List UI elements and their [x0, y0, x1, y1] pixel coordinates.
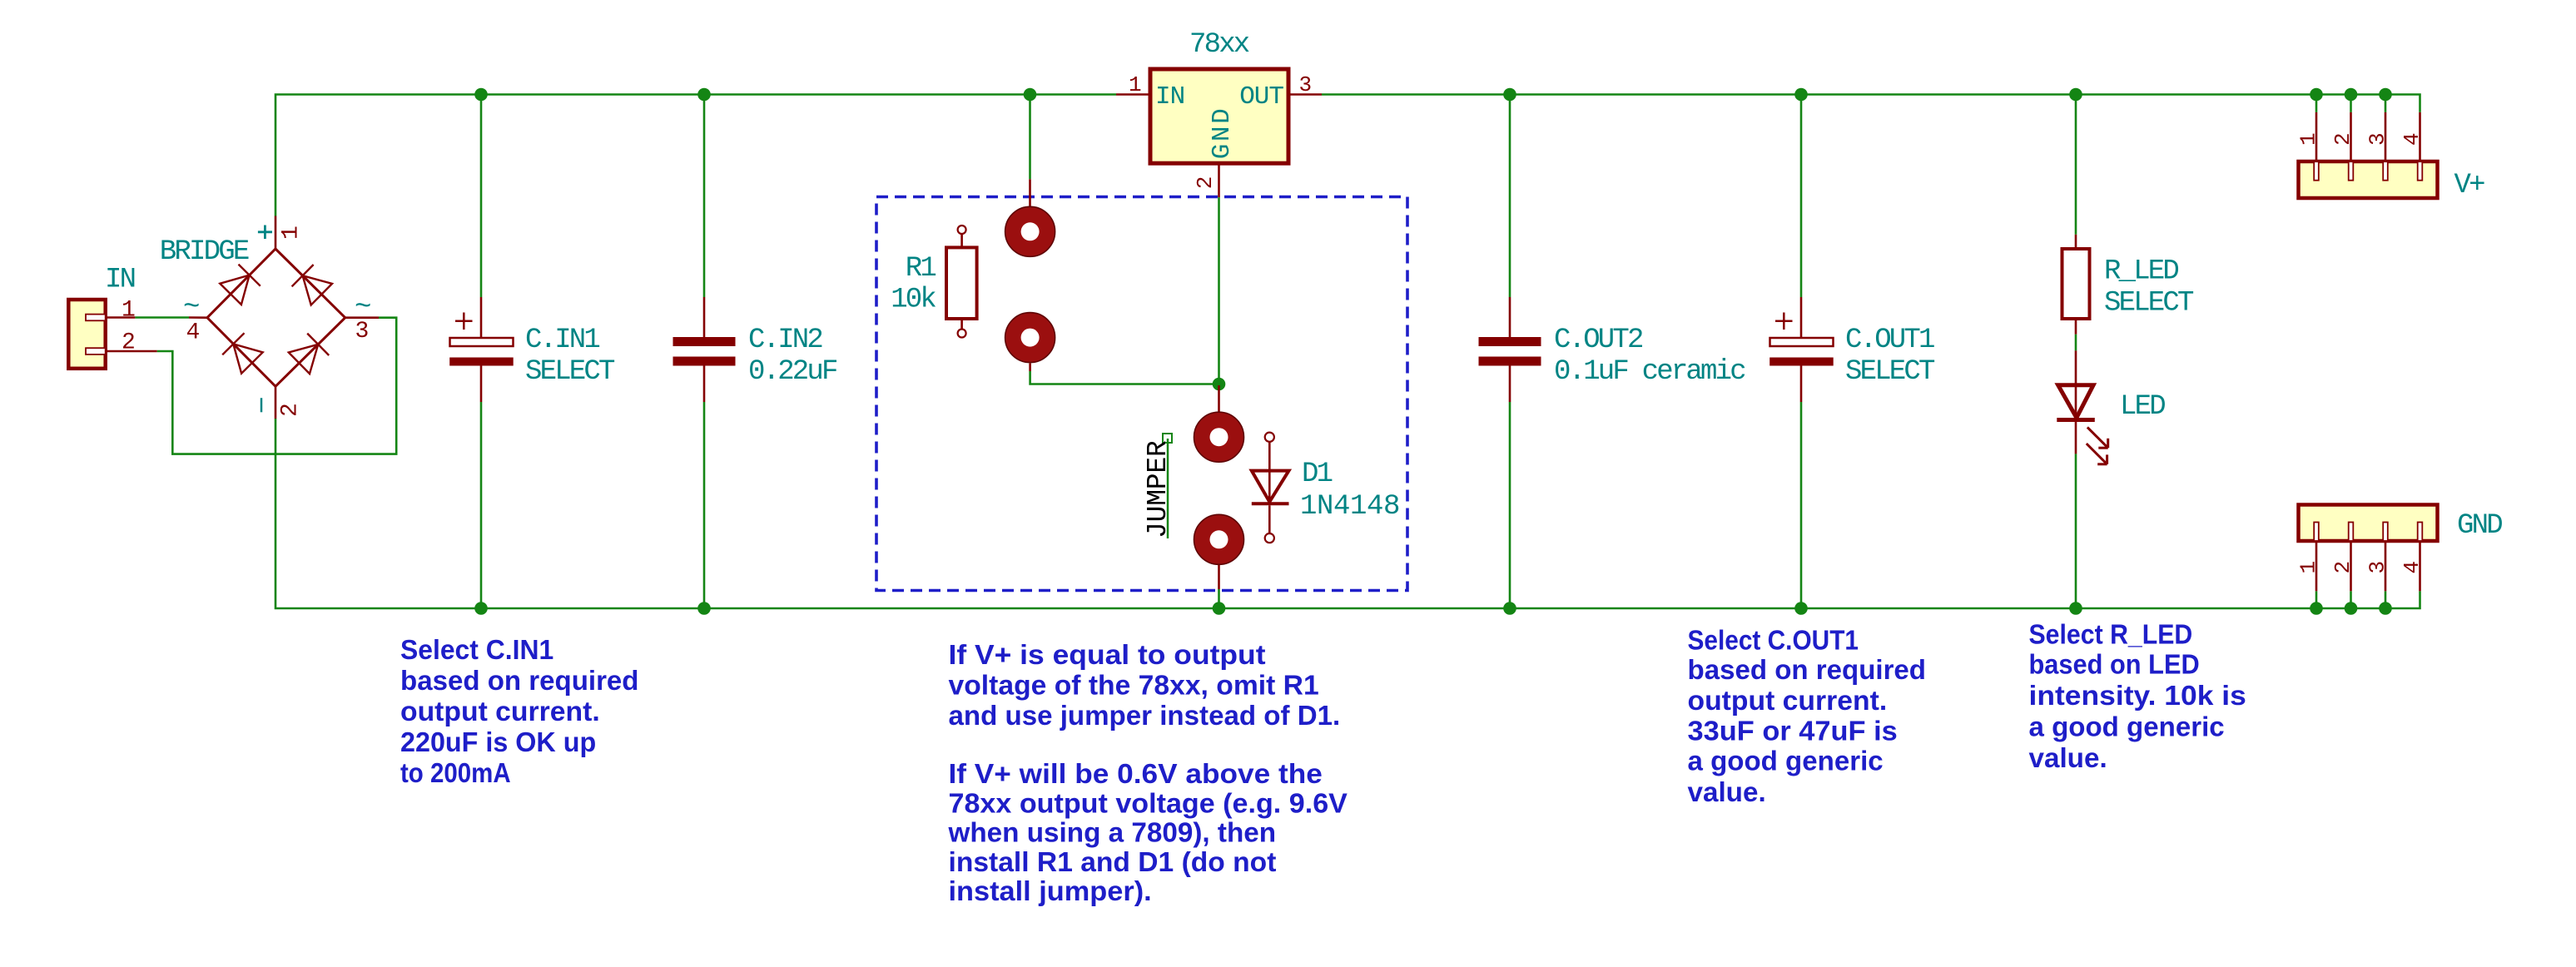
- svg-text:~: ~: [183, 292, 199, 324]
- svg-text:C.IN2: C.IN2: [748, 325, 821, 356]
- svg-text:based on required: based on required: [1688, 654, 1927, 685]
- svg-text:1: 1: [279, 226, 305, 240]
- svg-text:If V+ will be 0.6V above the: If V+ will be 0.6V above the: [949, 758, 1323, 789]
- svg-text:33uF or 47uF is: 33uF or 47uF is: [1688, 716, 1898, 746]
- svg-text:to 200mA: to 200mA: [400, 757, 511, 788]
- svg-text:value.: value.: [1688, 776, 1766, 807]
- svg-text:C.OUT1: C.OUT1: [1845, 325, 1934, 356]
- svg-text:and use jumper instead of D1.: and use jumper instead of D1.: [949, 700, 1341, 731]
- svg-text:3: 3: [355, 319, 369, 345]
- svg-text:1: 1: [2296, 562, 2321, 574]
- svg-text:1: 1: [122, 297, 135, 323]
- svg-text:V+: V+: [2454, 170, 2485, 201]
- svg-text:4: 4: [2400, 133, 2425, 146]
- svg-text:SELECT: SELECT: [525, 356, 615, 388]
- svg-text:2: 2: [1193, 177, 1218, 190]
- svg-text:LED: LED: [2120, 391, 2165, 423]
- svg-text:R_LED: R_LED: [2104, 255, 2178, 287]
- svg-text:SELECT: SELECT: [2104, 288, 2194, 320]
- svg-text:output current.: output current.: [400, 696, 600, 726]
- svg-text:10k: 10k: [891, 285, 936, 316]
- svg-text:IN: IN: [105, 264, 135, 295]
- svg-text:SELECT: SELECT: [1845, 356, 1935, 388]
- svg-text:IN: IN: [1155, 82, 1184, 112]
- svg-text:78xx output voltage (e.g. 9.6V: 78xx output voltage (e.g. 9.6V: [949, 787, 1348, 818]
- svg-text:JUMPER: JUMPER: [1143, 440, 1174, 538]
- svg-text:based on LED: based on LED: [2029, 648, 2200, 679]
- svg-text:78xx: 78xx: [1189, 29, 1249, 61]
- svg-text:2: 2: [122, 330, 135, 355]
- svg-text:Select C.OUT1: Select C.OUT1: [1688, 624, 1859, 655]
- svg-text:3: 3: [1299, 72, 1312, 97]
- svg-text:C.OUT2: C.OUT2: [1554, 325, 1642, 356]
- svg-text:D1: D1: [1302, 459, 1333, 490]
- svg-text:value.: value.: [2029, 742, 2107, 773]
- svg-text:based on required: based on required: [400, 665, 639, 696]
- svg-text:1N4148: 1N4148: [1300, 491, 1400, 523]
- svg-text:voltage of the 78xx, omit R1: voltage of the 78xx, omit R1: [949, 670, 1319, 701]
- svg-text:0.1uF ceramic: 0.1uF ceramic: [1554, 356, 1745, 388]
- svg-text:1: 1: [2296, 133, 2321, 146]
- svg-text:BRIDGE: BRIDGE: [160, 236, 249, 268]
- svg-text:0.22uF: 0.22uF: [748, 356, 837, 388]
- svg-text:GND: GND: [2457, 510, 2502, 542]
- svg-text:R1: R1: [906, 253, 936, 285]
- svg-text:when using a 7809), then: when using a 7809), then: [947, 817, 1276, 848]
- svg-text:intensity. 10k is: intensity. 10k is: [2029, 680, 2246, 711]
- svg-text:If V+ is equal to output: If V+ is equal to output: [949, 639, 1266, 670]
- svg-text:install R1 and D1 (do not: install R1 and D1 (do not: [949, 846, 1277, 877]
- svg-text:3: 3: [2365, 133, 2390, 146]
- svg-text:output current.: output current.: [1688, 685, 1888, 716]
- svg-text:OUT: OUT: [1239, 82, 1283, 112]
- svg-text:4: 4: [186, 320, 200, 345]
- svg-text:4: 4: [2400, 562, 2425, 574]
- svg-text:a good generic: a good generic: [2029, 712, 2225, 742]
- svg-text:1: 1: [1129, 72, 1141, 97]
- svg-text:GND: GND: [1208, 107, 1237, 160]
- svg-text:a good generic: a good generic: [1688, 746, 1884, 776]
- svg-text:Select C.IN1: Select C.IN1: [400, 634, 553, 665]
- svg-text:2: 2: [278, 404, 304, 417]
- svg-text:install jumper).: install jumper).: [949, 875, 1152, 906]
- svg-text:220uF is OK up: 220uF is OK up: [400, 726, 596, 757]
- svg-text:3: 3: [2365, 562, 2390, 574]
- svg-text:2: 2: [2330, 562, 2355, 574]
- svg-text:2: 2: [2330, 133, 2355, 146]
- svg-text:C.IN1: C.IN1: [525, 325, 599, 356]
- svg-text:Select R_LED: Select R_LED: [2029, 619, 2193, 650]
